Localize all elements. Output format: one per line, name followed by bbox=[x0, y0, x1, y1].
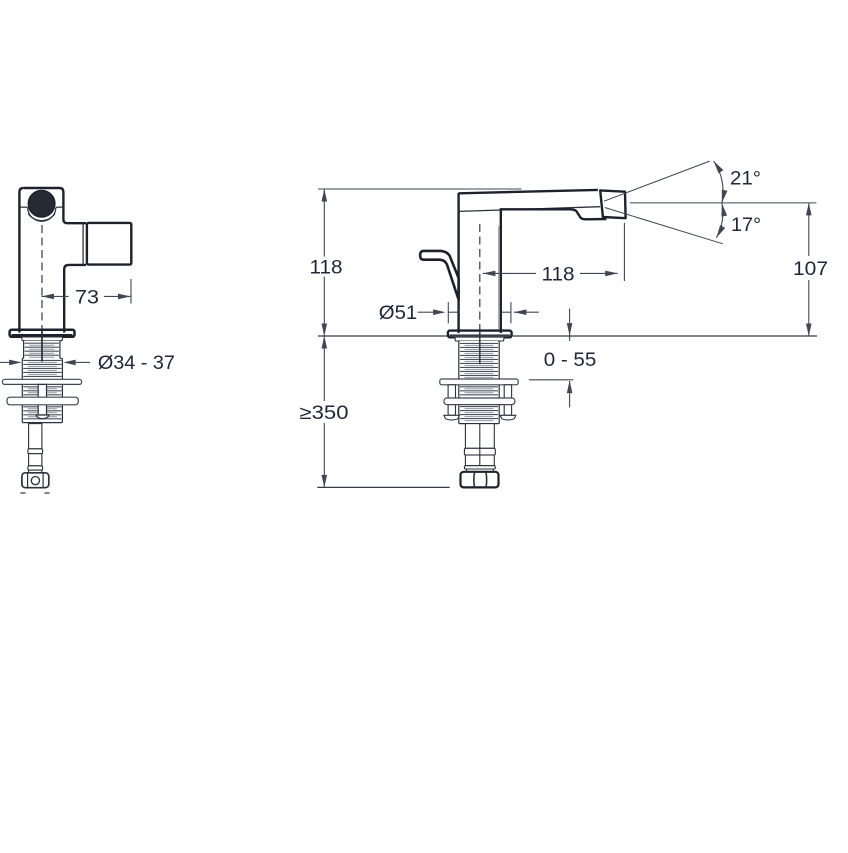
middle knob (lever end) bbox=[600, 190, 625, 218]
cone line 21deg bbox=[604, 161, 710, 201]
middle centerline bbox=[479, 224, 481, 330]
dim 73 line left bbox=[42, 295, 69, 297]
left view threaded shank outline bbox=[22, 341, 62, 423]
svg-text:0 - 55: 0 - 55 bbox=[544, 349, 597, 371]
middle stud right bbox=[504, 385, 511, 416]
left view threads lower1 bbox=[23, 386, 61, 388]
dim D51 arrow left bbox=[433, 309, 446, 315]
middle threads upper bbox=[460, 342, 498, 344]
dim 118 h extension bbox=[623, 223, 625, 281]
cone line horizontal bbox=[630, 202, 817, 204]
middle lever top edge bbox=[459, 190, 598, 195]
middle center solid line bbox=[479, 331, 481, 364]
dim D51 line left bbox=[418, 311, 434, 313]
dim 107 vertical line top bbox=[808, 203, 810, 256]
dim D34-37 line right bbox=[76, 361, 90, 363]
middle hex coupling nut bbox=[461, 472, 499, 488]
dim 118 h line left bbox=[483, 272, 536, 274]
cone arc upper bbox=[714, 161, 723, 203]
svg-text:≥350: ≥350 bbox=[300, 403, 349, 424]
dim D51 stub left bbox=[448, 311, 458, 313]
left view body outline bbox=[23, 188, 86, 223]
svg-text:Ø34 - 37: Ø34 - 37 bbox=[98, 353, 175, 374]
middle column left edge bbox=[457, 194, 459, 330]
middle spout outline bbox=[501, 209, 607, 219]
dim 118 h arrows bbox=[483, 271, 496, 277]
left view deck flange bbox=[10, 330, 75, 337]
dim D34-37 arrow right bbox=[63, 360, 75, 366]
middle deck flange bbox=[448, 331, 512, 338]
dim 107 arrows bbox=[806, 203, 812, 216]
dim 73 line right bbox=[104, 295, 131, 297]
middle washer plate bbox=[440, 379, 518, 385]
dim ge350 arrows bbox=[322, 336, 328, 349]
left view screw slot bbox=[38, 384, 46, 415]
dim 118 v text bbox=[308, 257, 344, 277]
middle stud foot right bbox=[500, 415, 516, 420]
left view spout end block bbox=[87, 223, 131, 265]
left view lock nut bbox=[7, 397, 78, 405]
middle handle hook bbox=[420, 251, 459, 300]
middle lock nut bbox=[444, 398, 515, 405]
svg-text:118: 118 bbox=[310, 257, 343, 278]
dim 0-55 lower arrow bbox=[567, 381, 573, 394]
cone arc lower arrows bbox=[721, 203, 727, 216]
dim 0-55 upper segment bbox=[569, 309, 571, 342]
dim 73 arrow right bbox=[118, 294, 131, 300]
middle threads lower bbox=[460, 406, 498, 408]
dim D51 arrow right bbox=[514, 309, 527, 315]
dim 118 v arrows bbox=[322, 189, 328, 202]
left view washer bbox=[3, 379, 82, 384]
middle stud left bbox=[448, 385, 455, 416]
deck reference line left bbox=[318, 335, 447, 337]
middle lever bottom line bbox=[459, 207, 601, 212]
svg-text:Ø51: Ø51 bbox=[379, 303, 417, 324]
left view threads lower2 bbox=[23, 406, 61, 408]
dim 118 vertical line bbox=[323, 189, 325, 336]
left view spout joint line bbox=[82, 224, 84, 264]
bottom reference line bbox=[317, 486, 449, 488]
left view center solid line bbox=[41, 330, 43, 362]
svg-text:21°: 21° bbox=[730, 168, 761, 189]
svg-text:118: 118 bbox=[542, 264, 575, 285]
cone arc lower bbox=[716, 203, 722, 238]
dim D51 tick left bbox=[447, 302, 449, 323]
middle threaded shank outline bbox=[459, 341, 499, 424]
cone arc upper arrows bbox=[714, 161, 724, 173]
dim 118 h line right bbox=[580, 272, 618, 274]
middle stud foot left bbox=[444, 415, 460, 420]
left view knob cradle arc bbox=[21, 207, 63, 221]
dim 0-55 lower segment bbox=[569, 381, 571, 408]
cone line 17deg bbox=[605, 208, 723, 244]
deck reference line right bbox=[513, 335, 817, 337]
left view supply tube bbox=[29, 424, 42, 449]
dim 73 arrow left bbox=[42, 294, 55, 300]
dim 0-55 upper arrow bbox=[567, 323, 573, 336]
dim 73 extension line bbox=[130, 279, 132, 304]
middle threads mid bbox=[460, 386, 498, 388]
dim D34-37 arrow left bbox=[9, 360, 22, 366]
svg-text:107: 107 bbox=[793, 259, 828, 280]
dim D34-37 line left bbox=[0, 361, 9, 363]
svg-text:73: 73 bbox=[75, 287, 99, 308]
dim ge350 text bbox=[297, 401, 351, 423]
left view hose hex fitting bbox=[22, 473, 49, 488]
left view hose break dashes bbox=[21, 492, 26, 494]
left view threads mid bbox=[23, 359, 61, 361]
left view screw dome bbox=[36, 415, 49, 419]
left view collar under flange bbox=[22, 337, 63, 341]
dim 0-55 washer extension bbox=[529, 379, 573, 381]
dim ge350 vertical line bbox=[323, 336, 325, 487]
left view threads upper bbox=[25, 342, 59, 344]
dim D51 tick right bbox=[510, 302, 512, 323]
dim 107 vertical line bottom bbox=[808, 280, 810, 336]
dim D51 tail right bbox=[514, 311, 539, 313]
middle column right edge bbox=[500, 210, 502, 331]
middle supply tubes bbox=[465, 424, 494, 449]
middle column inner line bbox=[498, 226, 500, 329]
left view knob (black cap) bbox=[28, 191, 54, 217]
svg-text:17°: 17° bbox=[731, 215, 761, 236]
left view centerline bbox=[41, 225, 43, 329]
top extent extension line bbox=[318, 188, 522, 190]
middle collar under flange bbox=[455, 337, 504, 341]
dim D51 stub right bbox=[502, 311, 511, 313]
